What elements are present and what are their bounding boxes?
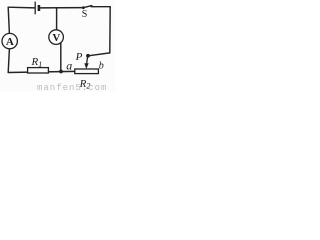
voltmeter V circle (49, 30, 64, 45)
svg-text:b: b (99, 60, 104, 71)
wire ammeter to bottom-left corner (8, 49, 9, 73)
wire voltmeter top lead (56, 8, 58, 30)
rheostat wiper arrowhead (84, 63, 88, 69)
wire right vertical (109, 7, 111, 53)
wire battery to switch (40, 7, 84, 9)
resistor R1 box (28, 68, 49, 73)
wire switch to top-right corner (91, 6, 110, 8)
wire bottom (through R1 to rheostat) (8, 71, 75, 72)
svg-text:A: A (6, 36, 14, 48)
wire left vertical (corner to ammeter) (8, 7, 9, 33)
battery short thick plate (38, 5, 41, 11)
wire voltmeter bottom lead (60, 43, 62, 72)
svg-text:S: S (82, 9, 88, 20)
rheostat R2 box (75, 69, 99, 74)
svg-text:V: V (52, 32, 60, 44)
wire top-left segment (8, 6, 35, 9)
junction dot node a (59, 70, 63, 74)
switch pivot dot (82, 6, 85, 9)
svg-text:manfen5.com: manfen5.com (37, 83, 107, 92)
junction dot wiper P (86, 54, 90, 58)
switch S blade (83, 6, 92, 8)
svg-text:P: P (75, 51, 83, 63)
wire mid horizontal to wiper (88, 53, 110, 56)
svg-text:a: a (66, 59, 72, 73)
ammeter A circle (2, 33, 17, 48)
battery long plate (34, 2, 36, 15)
rheostat wiper stem (86, 56, 89, 63)
